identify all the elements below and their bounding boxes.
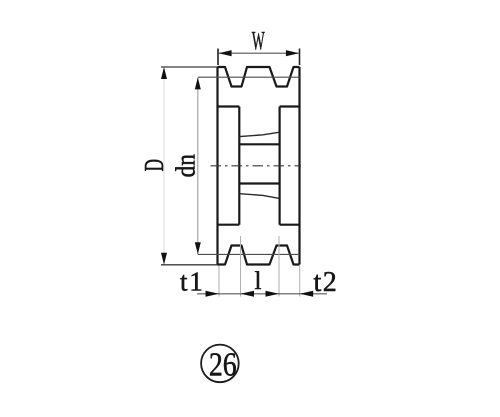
svg-text:D: D xyxy=(139,159,169,171)
svg-text:dn: dn xyxy=(172,154,201,178)
svg-text:W: W xyxy=(252,28,265,56)
svg-text:t1: t1 xyxy=(180,267,205,297)
svg-text:l: l xyxy=(255,268,262,295)
svg-text:t2: t2 xyxy=(314,267,339,298)
svg-text:26: 26 xyxy=(209,345,237,383)
